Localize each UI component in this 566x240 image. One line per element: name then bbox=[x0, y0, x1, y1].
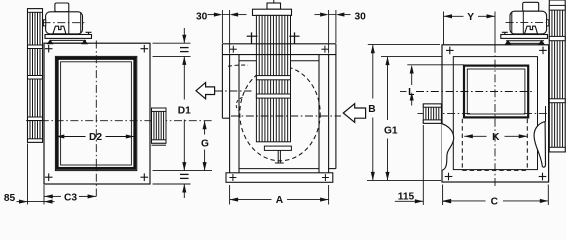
svg-text:D2: D2 bbox=[89, 132, 102, 143]
svg-text:G: G bbox=[201, 138, 209, 149]
svg-text:A: A bbox=[276, 195, 284, 206]
svg-text:30: 30 bbox=[196, 11, 208, 22]
svg-text:D1: D1 bbox=[178, 106, 191, 117]
svg-text:C: C bbox=[491, 197, 499, 207]
svg-text:K: K bbox=[492, 132, 500, 143]
svg-text:85: 85 bbox=[4, 193, 16, 204]
svg-text:C3: C3 bbox=[64, 193, 77, 204]
svg-text:Y: Y bbox=[467, 12, 474, 23]
svg-text:G1: G1 bbox=[384, 126, 398, 137]
svg-text:30: 30 bbox=[355, 11, 367, 22]
svg-text:B: B bbox=[368, 104, 375, 115]
